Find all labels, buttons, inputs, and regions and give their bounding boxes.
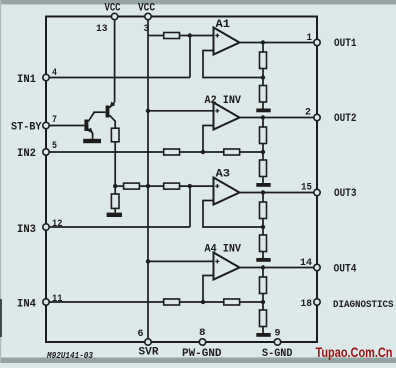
svg-text:IN2: IN2 [17,148,36,160]
pin 9 S-GND [262,328,293,360]
wire divider to feedback tap [262,69,264,78]
node A1 output divider junction [261,40,265,44]
wire IN3 from pin 12 to riser [50,226,190,228]
svg-text:OUT2: OUT2 [334,113,357,125]
svg-text:9: 9 [275,328,281,339]
svg-text:OUT3: OUT3 [334,188,357,200]
resistor R12 (A2 divider upper) [260,118,267,144]
svg-text:13: 13 [96,24,108,35]
svg-text:8: 8 [199,328,206,339]
wire ST-BY from pin 7 to Q1 base [50,125,85,127]
node A2 output divider junction [261,115,265,119]
resistor R6 (bias divider) [111,186,119,213]
svg-text:3: 3 [144,24,150,35]
wire IN3 riser up to + node [189,186,191,227]
svg-text:M92U141-03: M92U141-03 [46,350,93,361]
node A1 feedback tap [261,75,265,79]
svg-text:14: 14 [300,258,312,269]
resistor R17 (A3 divider lower) [260,227,267,258]
wire A1 bias resistor to + input [180,35,214,37]
resistor R9 (A1 divider lower) [260,78,267,109]
label drawing code M92U141-03 [46,350,93,361]
wire Q1 collector to Q2 base [93,111,105,113]
wire A1 output to pin [240,42,314,44]
wire input resistor to summing node [180,301,224,303]
ground at Q1 emitter [83,139,101,143]
wire feedback resistor to divider tap [240,301,263,303]
pin 11 IN4 [17,294,63,311]
node A4 summing junction [201,300,205,304]
node bias rail tap for A2 [146,109,150,113]
node A2 summing junction [201,150,205,154]
IC package outline [46,17,317,343]
wire A1 feedback to divider tap [203,51,263,78]
pin 1 OUT1 [307,33,357,50]
svg-text:11: 11 [52,294,63,305]
svg-text:1: 1 [307,33,313,44]
svg-text:IN3: IN3 [17,224,36,236]
node A1 + input junction [188,33,192,37]
node A3 + input junction [188,184,192,188]
svg-text:SVR: SVR [139,346,159,358]
svg-text:OUT1: OUT1 [334,38,357,50]
wire Q2 collector resistor down to bias node [114,142,116,186]
resistor R5 (Q2 collector) [111,128,119,142]
svg-text:VCC: VCC [138,3,155,15]
wire input resistor to summing node [180,151,224,153]
svg-text:Tupao.Com.Cn: Tupao.Com.Cn [316,345,393,360]
label A3 [216,169,231,181]
wire IN2 from pin 5 to input resistor [50,151,164,153]
op-amp A1 [214,28,240,55]
wire divider to feedback tap [262,144,264,153]
pin 4 IN1 [17,68,57,86]
pin 12 IN3 [17,219,63,236]
wire feedback resistor to divider tap [240,151,263,153]
wire divider resistor to rail [139,185,148,187]
pin 5 IN2 [17,141,57,160]
transistor Q2 [106,102,116,129]
resistor R21 (A4 divider lower) [260,302,267,333]
label A2 INV [205,95,242,107]
svg-text:7: 7 [52,115,57,126]
pin 6 SVR [138,329,159,358]
node A3 feedback tap [261,225,265,229]
node A4 output divider junction [261,265,265,269]
pin 13 VCC [96,3,121,35]
wire A3 output to pin [240,192,314,194]
node A3 output divider junction [261,190,265,194]
svg-text:15: 15 [301,182,312,193]
pin 15 OUT3 [301,182,357,200]
svg-text:PW-GND: PW-GND [182,348,222,360]
pin 8 PW-GND [182,328,222,360]
resistor R8 (A1 divider upper) [260,43,267,69]
svg-text:6: 6 [138,329,144,340]
svg-text:5: 5 [52,141,57,152]
wire bias rail to A1 non-inverting input [148,35,164,37]
ground at A1 divider (signal ground) [256,109,270,113]
wire divider to feedback tap [262,219,264,228]
label A4 INV [205,244,242,256]
resistor R11 (A2 feedback) [224,149,240,155]
ground at A4 divider (signal ground) [256,333,270,337]
svg-text:4: 4 [52,68,57,79]
svg-text:IN1: IN1 [17,74,36,86]
node bias rail tap for A3 [146,184,150,188]
wire A3 bias resistor to + input [180,185,214,187]
label A1 [216,19,231,31]
op-amp A2 [214,103,240,130]
resistor R10 (IN2 series) [164,149,180,155]
pin 14 OUT4 [300,258,357,276]
ground at bias divider [107,213,122,217]
ground at A2 divider (signal ground) [256,183,270,187]
wire A2 output to pin [240,117,314,119]
svg-text:2: 2 [305,108,311,119]
wire divider to feedback tap [262,294,264,303]
resistor R20 (A4 divider upper) [260,268,267,294]
wire bias rail to A4 non-inverting input [148,260,214,262]
wire bias rail to A2 non-inverting input [148,110,214,112]
resistor R19 (A4 feedback) [224,299,240,305]
svg-text:OUT4: OUT4 [334,263,357,275]
ground at A3 divider (signal ground) [256,258,270,262]
op-amp A4 [214,253,240,280]
svg-text:DIAGNOSTICS: DIAGNOSTICS [333,299,394,311]
pin 18 DIAGNOSTICS [301,299,394,311]
wire IN4 from pin 11 to input resistor [50,301,164,303]
wire A4 output to pin [240,267,314,269]
svg-text:IN4: IN4 [17,299,36,311]
wire bias rail from pin 3 down to pin 6 (SVR) [147,17,149,339]
label Tupao.Com.Cn watermark [316,345,393,360]
wire A2 inverting input to summing node [203,126,214,153]
node bias rail tap for A4 [146,259,150,263]
resistor R18 (IN4 series) [164,299,180,305]
node bias divider junction [113,184,117,188]
resistor R7 (A1 + input bias) [164,33,180,39]
svg-text:12: 12 [52,219,63,230]
svg-text:VCC: VCC [105,3,121,15]
wire A3 feedback to divider tap [203,201,263,228]
svg-text:A2 INV: A2 INV [205,95,242,107]
svg-text:A1: A1 [216,19,231,31]
pin 2 OUT2 [305,108,357,126]
pin 7 ST-BY [11,115,57,134]
svg-text:ST-BY: ST-BY [11,122,42,134]
pin 3 VCC [138,3,155,35]
wire VCC rail from pin 13 down to Q2 emitter [114,17,116,102]
resistor R13 (A2 divider lower) [260,152,267,183]
svg-text:A3: A3 [216,169,231,181]
node A2 feedback tap [261,150,265,154]
wire IN1 from pin 4 to riser [50,77,190,79]
resistor R14 (A3 bias from standby divider) [115,183,139,189]
resistor R16 (A3 divider upper) [260,193,267,219]
wire A4 inverting input to summing node [203,276,214,303]
op-amp A3 [214,178,240,205]
node A4 feedback tap [261,300,265,304]
svg-text:A4 INV: A4 INV [205,244,242,256]
resistor R15 (A3 + input bias) [148,183,180,189]
wire IN1 riser up to + node [189,36,191,78]
svg-text:18: 18 [301,299,313,310]
transistor Q1 [84,112,94,139]
svg-text:S-GND: S-GND [262,348,293,360]
